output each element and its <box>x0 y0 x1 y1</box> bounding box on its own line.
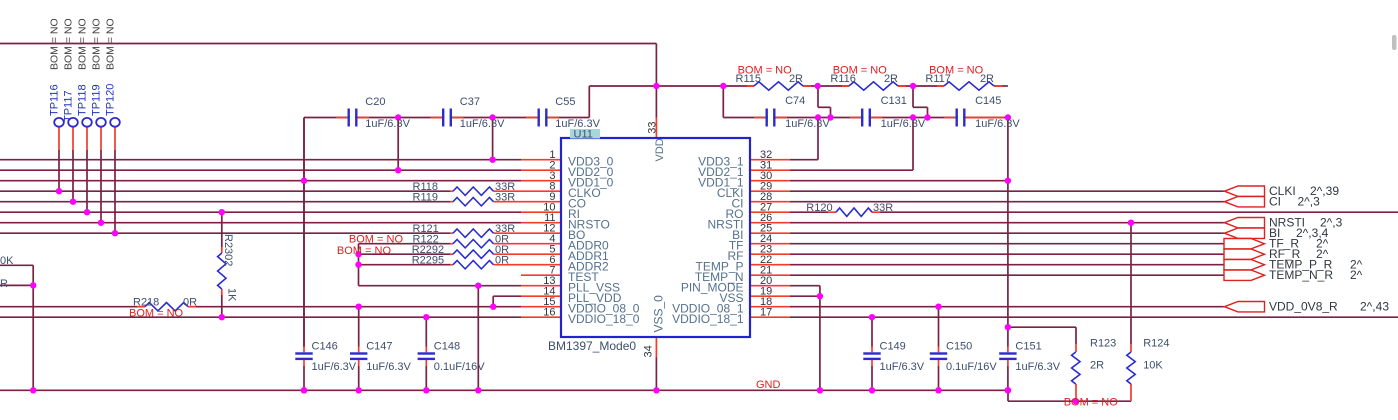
svg-text:1uF/6.3V: 1uF/6.3V <box>975 118 1020 130</box>
svg-text:BOM = NO: BOM = NO <box>738 65 793 77</box>
svg-text:34: 34 <box>643 345 655 357</box>
svg-text:0.1uF/16V: 0.1uF/16V <box>434 361 485 373</box>
svg-text:BOM = NO: BOM = NO <box>63 18 75 70</box>
svg-text:1uF/6.3V: 1uF/6.3V <box>881 118 926 130</box>
svg-text:VDD: VDD <box>654 138 666 161</box>
svg-text:TP117: TP117 <box>63 90 75 122</box>
svg-text:R2302: R2302 <box>222 234 234 266</box>
svg-text:VDDIO_18_0: VDDIO_18_0 <box>568 312 640 326</box>
svg-text:C147: C147 <box>366 340 392 352</box>
svg-text:C151: C151 <box>1015 340 1041 352</box>
svg-text:BOM = NO: BOM = NO <box>49 18 61 70</box>
svg-text:TP118: TP118 <box>77 84 89 116</box>
svg-text:33: 33 <box>647 122 659 134</box>
svg-text:1uF/6.3V: 1uF/6.3V <box>365 118 410 130</box>
svg-text:C149: C149 <box>880 340 906 352</box>
svg-text:BOM = NO: BOM = NO <box>105 18 117 70</box>
svg-text:R: R <box>0 278 8 290</box>
svg-text:GND: GND <box>756 379 781 391</box>
svg-text:R124: R124 <box>1143 337 1169 349</box>
svg-text:1uF/6.3V: 1uF/6.3V <box>880 361 925 373</box>
svg-text:C145: C145 <box>975 95 1001 107</box>
svg-text:17: 17 <box>760 307 772 319</box>
svg-text:C131: C131 <box>881 95 907 107</box>
svg-text:1uF/6.3V: 1uF/6.3V <box>366 361 411 373</box>
svg-text:1uF/6.3V: 1uF/6.3V <box>785 118 830 130</box>
svg-text:C146: C146 <box>312 340 338 352</box>
svg-text:R2295: R2295 <box>412 255 444 267</box>
svg-text:1uF/6.3V: 1uF/6.3V <box>312 361 357 373</box>
svg-text:R119: R119 <box>413 192 438 204</box>
svg-text:TP116: TP116 <box>49 84 61 116</box>
svg-text:1K: 1K <box>226 288 238 302</box>
svg-text:R123: R123 <box>1090 337 1116 349</box>
svg-text:CI: CI <box>1269 195 1281 209</box>
svg-text:BOM = NO: BOM = NO <box>77 18 89 70</box>
svg-text:10K: 10K <box>1143 359 1163 371</box>
svg-text:C148: C148 <box>434 340 460 352</box>
svg-text:0.1uF/16V: 0.1uF/16V <box>946 361 997 373</box>
svg-text:33R: 33R <box>495 192 515 204</box>
svg-text:1uF/6.3V: 1uF/6.3V <box>1015 361 1060 373</box>
svg-text:VSS_0: VSS_0 <box>652 295 666 333</box>
svg-text:C55: C55 <box>555 96 575 108</box>
svg-text:16: 16 <box>543 307 555 319</box>
svg-text:2^,3: 2^,3 <box>1298 195 1321 209</box>
svg-text:C150: C150 <box>946 340 972 352</box>
svg-text:BOM = NO: BOM = NO <box>833 65 888 77</box>
svg-text:TP120: TP120 <box>105 84 117 116</box>
svg-text:2^: 2^ <box>1350 268 1363 282</box>
svg-text:2^,43: 2^,43 <box>1360 300 1389 314</box>
svg-text:BOM = NO: BOM = NO <box>91 18 103 70</box>
svg-text:C20: C20 <box>365 96 385 108</box>
svg-text:VDDIO_18_1: VDDIO_18_1 <box>672 312 744 326</box>
svg-text:TEMP_N_R: TEMP_N_R <box>1269 268 1333 282</box>
svg-text:1uF/6.3V: 1uF/6.3V <box>460 118 505 130</box>
svg-text:C37: C37 <box>460 96 480 108</box>
svg-text:C74: C74 <box>785 95 805 107</box>
svg-text:TP119: TP119 <box>91 84 103 116</box>
svg-text:BOM = NO: BOM = NO <box>129 307 184 319</box>
svg-text:BM1397_Mode0: BM1397_Mode0 <box>548 339 636 353</box>
svg-text:2R: 2R <box>1090 359 1104 371</box>
svg-text:33R: 33R <box>873 202 893 214</box>
svg-text:U11: U11 <box>574 129 593 141</box>
svg-text:0K: 0K <box>0 255 14 267</box>
svg-text:VDD_0V8_R: VDD_0V8_R <box>1269 300 1338 314</box>
svg-text:R120: R120 <box>806 202 832 214</box>
svg-text:BOM = NO: BOM = NO <box>337 245 392 257</box>
svg-text:0R: 0R <box>495 255 509 267</box>
svg-text:BOM = NO: BOM = NO <box>1064 397 1119 409</box>
svg-text:BOM = NO: BOM = NO <box>929 65 984 77</box>
svg-text:0R: 0R <box>183 297 197 309</box>
